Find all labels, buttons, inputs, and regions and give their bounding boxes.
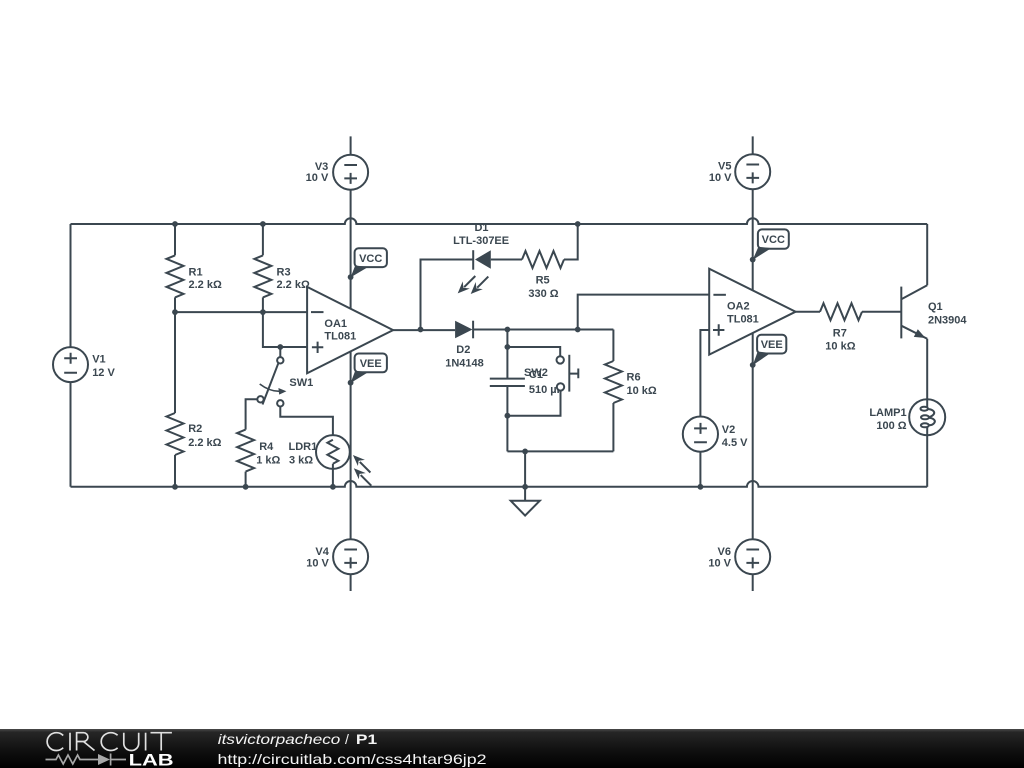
pushbutton SW2 [507,347,578,416]
svg-text:2.2 kΩ: 2.2 kΩ [189,279,222,291]
wire V5-V6 vertical [752,136,754,591]
junction ground bottom rail [522,484,528,490]
junction VEE OA1 [348,380,354,386]
junction ground branch top [522,449,528,455]
svg-text:10 V: 10 V [709,172,732,184]
svg-text:R6: R6 [627,372,641,384]
svg-text:LAMP1: LAMP1 [869,407,906,419]
power tag VCC (OA1) [351,248,387,277]
voltage source V2 [683,417,748,487]
wire D2 node to R6 [507,329,613,331]
svg-text:V6: V6 [718,546,731,558]
resistor R4 [237,430,280,487]
svg-text:4.5 V: 4.5 V [722,437,748,449]
svg-text:R5: R5 [536,274,550,286]
svg-text:3 kΩ: 3 kΩ [289,455,313,467]
junction VEE OA2 [750,362,756,368]
svg-text:10 V: 10 V [306,558,329,570]
junction VCC OA1 [348,274,354,280]
power tag VCC (OA2) [753,229,789,260]
svg-text:/: / [345,731,349,747]
voltage source V1 [53,347,115,382]
svg-text:10 kΩ: 10 kΩ [825,341,855,353]
svg-text:SW1: SW1 [289,377,313,389]
wire feedback to OA2 inverting [578,295,710,330]
op-amp OA2 [709,269,795,355]
svg-text:TL081: TL081 [324,331,356,343]
svg-text:R2: R2 [188,423,202,435]
svg-text:P1: P1 [356,731,377,747]
junction R2 bottom rail [172,484,178,490]
svg-text:TL081: TL081 [727,314,759,326]
svg-text:2.2 kΩ: 2.2 kΩ [277,279,310,291]
svg-text:R7: R7 [833,327,847,339]
svg-text:http://circuitlab.com/css4htar: http://circuitlab.com/css4htar96jp2 [218,751,487,767]
svg-text:VCC: VCC [359,253,382,265]
svg-text:V4: V4 [315,546,329,558]
wire ground branch [524,451,526,500]
svg-text:R4: R4 [259,441,274,453]
svg-text:2.2 kΩ: 2.2 kΩ [188,437,221,449]
power tag VEE (OA1) [351,354,387,384]
op-amp OA1 [307,287,393,373]
svg-text:D2: D2 [456,344,470,356]
svg-text:330 Ω: 330 Ω [528,288,558,300]
svg-text:R3: R3 [277,266,291,278]
wire R2 column [174,312,176,487]
voltage source V6 [708,539,770,574]
junction LDR1 bottom rail [330,484,336,490]
svg-text:V5: V5 [718,160,731,172]
switch SW1 [257,347,313,406]
diode D2 [445,321,507,370]
junction SW1 non-inverting node [277,344,283,350]
svg-text:10 V: 10 V [708,558,731,570]
junction R3 inverting node [260,309,266,315]
svg-text:LDR1: LDR1 [289,441,318,453]
junction R1-R2 inverting node [172,309,178,315]
LED D1 [453,222,522,294]
transistor Q1 [901,224,967,399]
wire D1 branch vertical [421,260,474,330]
wire top rail [71,218,928,224]
wire bottom rail [71,481,928,487]
wire SW1 right pole to LDR1 [280,407,333,440]
voltage source V5 [709,154,770,189]
resistor R6 [605,330,657,452]
svg-text:D1: D1 [474,222,488,234]
junction V2 bottom rail [698,484,704,490]
footer bar [0,729,1024,768]
resistor R7 [796,303,902,353]
wire R1 column [174,224,176,312]
junction SW2 top [505,344,511,350]
wire cap branch [506,330,508,452]
svg-text:10 V: 10 V [306,172,329,184]
junction D1 branch [418,327,424,333]
junction SW2 bottom [505,413,511,419]
svg-text:OA1: OA1 [324,318,347,330]
svg-text:2N3904: 2N3904 [928,315,967,327]
voltage source V3 [306,155,368,190]
ground [511,501,540,516]
svg-text:Q1: Q1 [928,301,943,313]
svg-text:100 Ω: 100 Ω [876,420,906,432]
junction R5 top rail [575,221,581,227]
svg-text:V1: V1 [92,353,105,365]
wire R3 column [262,224,264,312]
junction R3 top rail [260,221,266,227]
capacitor C1 [490,369,564,396]
svg-text:LTL-307EE: LTL-307EE [453,235,509,247]
wire OA1 output [393,329,455,331]
wire SW1 left pole to R4 [246,399,258,429]
junction R4 bottom rail [243,484,249,490]
resistor R5 [522,224,578,300]
junction R1 top rail [172,221,178,227]
resistor R2 [167,413,222,455]
junction VCC OA2 [750,257,756,263]
wire cap bottom to R6 bottom [507,450,613,452]
svg-text:VCC: VCC [762,234,785,246]
svg-text:LAB: LAB [129,750,174,768]
resistor R1 [167,255,222,297]
svg-text:OA2: OA2 [727,301,750,313]
voltage source V4 [306,539,368,574]
svg-text:VEE: VEE [761,339,783,351]
svg-text:itsvictorpacheco: itsvictorpacheco [218,731,341,747]
svg-text:VEE: VEE [360,358,382,370]
wire left rail [70,224,72,487]
lamp LAMP1 [869,399,945,487]
wire non-inverting branch [263,312,307,347]
resistor R3 [254,255,310,297]
wire inverting input line [175,311,307,313]
logo resistor-diode glyph [46,754,127,766]
junction C1 top branch [505,327,511,333]
junction dots [172,221,756,490]
svg-text:1N4148: 1N4148 [445,358,484,370]
svg-text:R1: R1 [189,266,203,278]
junction feedback branch [575,327,581,333]
svg-text:V2: V2 [722,424,735,436]
wire OA2 non-inverting to V2 [700,330,709,417]
svg-text:SW2: SW2 [524,367,548,379]
photoresistor LDR1 [289,435,372,487]
wire V3-V4 vertical [350,136,352,591]
power tag VEE (OA2) [753,335,787,366]
svg-text:12 V: 12 V [92,367,115,379]
svg-text:10 kΩ: 10 kΩ [627,385,657,397]
logo CIRCUIT [47,733,172,751]
svg-text:1 kΩ: 1 kΩ [256,455,280,467]
